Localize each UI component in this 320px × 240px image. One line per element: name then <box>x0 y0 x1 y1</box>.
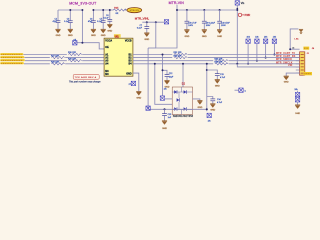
ground <box>295 105 300 109</box>
svg-text:10pF: 10pF <box>169 76 174 78</box>
wire Vin drop <box>236 5 238 64</box>
diode <box>184 90 187 94</box>
svg-text:NC: NC <box>105 73 109 76</box>
ground <box>55 29 60 33</box>
wire row1 right <box>133 54 300 56</box>
capacitor C10 <box>219 10 221 30</box>
wire 3V3 rail <box>58 9 82 11</box>
capacitor C12 <box>165 75 170 77</box>
svg-text:GND: GND <box>126 72 132 75</box>
capacitor C14 on vb line <box>207 97 213 99</box>
wire 3V3 to OE <box>81 10 83 43</box>
net label bus row2 (yellow) <box>1 56 23 58</box>
diode <box>184 107 187 111</box>
ground <box>101 29 106 33</box>
svg-text:VCCA: VCCA <box>105 40 112 43</box>
IC U1 level shifter <box>104 38 133 76</box>
ground <box>184 30 189 34</box>
wire OE net <box>76 43 104 49</box>
diode <box>174 107 177 111</box>
wire row4 right <box>133 63 300 65</box>
connector name highlight <box>303 47 309 50</box>
port on bottom rail <box>146 106 150 110</box>
wire port to ESD <box>165 98 173 100</box>
capacitor C5 <box>102 10 104 29</box>
ground <box>164 81 169 85</box>
resistor R31 <box>172 53 187 56</box>
capacitor C4 <box>92 10 94 29</box>
wire row3 left <box>25 60 104 62</box>
wire long drop to ESD rail <box>147 48 149 109</box>
svg-text:R33 22R: R33 22R <box>214 58 222 60</box>
svg-text:OE: OE <box>105 46 109 49</box>
svg-text:24v: 24v <box>208 120 211 122</box>
wire row4 to ESD drop1 <box>155 64 172 105</box>
svg-text:GND: GND <box>184 36 189 38</box>
connector pins <box>296 55 300 74</box>
ground <box>107 24 112 28</box>
capacitor C13 <box>207 70 218 74</box>
svg-text:47pF: 47pF <box>52 21 57 23</box>
wire Vin to connector pin5 <box>237 64 299 67</box>
resistor R27 <box>50 56 65 59</box>
svg-text:R29 22R: R29 22R <box>51 62 59 64</box>
svg-text:0.1uF: 0.1uF <box>103 18 109 20</box>
port spare <box>239 88 243 92</box>
junction <box>164 108 166 110</box>
port VBUS <box>160 96 164 100</box>
svg-text:C10 47pF: C10 47pF <box>221 22 231 24</box>
port below junction <box>207 113 211 117</box>
svg-text:R27 22R: R27 22R <box>51 55 59 57</box>
wire row2 right <box>133 57 300 59</box>
svg-text:0.1uF: 0.1uF <box>97 21 103 23</box>
capacitor C2 <box>57 10 59 29</box>
svg-text:0.1uF: 0.1uF <box>137 28 143 30</box>
junction <box>146 21 148 23</box>
svg-text:GND: GND <box>56 35 61 37</box>
wire stub to spare port <box>235 89 239 91</box>
part name highlight <box>304 72 312 75</box>
capacitor C6 <box>109 10 111 24</box>
svg-text:GND: GND <box>162 128 167 130</box>
svg-text:GND: GND <box>68 35 73 37</box>
svg-text:pd: pd <box>129 83 131 85</box>
svg-text:R26 22R: R26 22R <box>68 52 76 54</box>
svg-text:4.7uF: 4.7uF <box>217 102 223 104</box>
capacitor C9 <box>203 10 205 30</box>
power plug P1 <box>238 13 241 16</box>
ground <box>210 104 215 108</box>
IC ground pin wire <box>133 73 139 91</box>
svg-text:U1: U1 <box>115 34 119 38</box>
port MTR_VINL <box>164 20 168 24</box>
svg-text:1.6A: 1.6A <box>294 37 299 40</box>
svg-text:R34 22R: R34 22R <box>214 62 222 64</box>
capacitor C7 <box>146 22 148 33</box>
svg-text:io: io <box>245 90 246 92</box>
svg-text:MTR_VINL: MTR_VINL <box>135 16 150 20</box>
svg-text:GND: GND <box>284 82 289 84</box>
annotation box (red) <box>73 75 99 80</box>
resistor R25 0R <box>113 9 126 11</box>
svg-text:GND: GND <box>91 35 96 37</box>
ground below connector <box>286 73 299 76</box>
net label bus row3 (yellow) <box>1 59 24 61</box>
svg-text:100V: 100V <box>188 25 193 27</box>
wire row1 left <box>24 54 105 56</box>
svg-text:100V: 100V <box>221 25 226 27</box>
capacitor C3 <box>69 10 71 29</box>
svg-text:24v: 24v <box>164 88 167 90</box>
ground <box>91 29 96 33</box>
svg-text:C9 0.22uF: C9 0.22uF <box>206 22 216 24</box>
ground <box>162 121 167 125</box>
diode <box>177 98 180 102</box>
svg-text:100V: 100V <box>206 25 211 27</box>
junction row4 Vin <box>236 63 238 65</box>
svg-text:R28 22R: R28 22R <box>68 58 76 60</box>
port Vin <box>235 1 239 5</box>
resistor R32 <box>172 56 187 59</box>
wire <box>125 9 127 11</box>
wire row4 left <box>24 63 104 65</box>
svg-text:SMF05C/SOT353: SMF05C/SOT353 <box>173 115 194 118</box>
wire MTR-VIN rail <box>177 9 237 11</box>
ground <box>202 30 207 34</box>
junction dots <box>176 9 178 11</box>
svg-text:TCK 0402 REV A: TCK 0402 REV A <box>75 76 97 79</box>
svg-text:0.1uF: 0.1uF <box>64 21 70 23</box>
svg-text:R31 22R: R31 22R <box>174 52 182 54</box>
svg-text:MTR-VIN: MTR-VIN <box>130 10 140 12</box>
wire bottom rail <box>148 108 207 110</box>
resistor R26 <box>67 53 82 56</box>
wire row3 right <box>133 60 300 62</box>
svg-text:MCM_3V3-OUT: MCM_3V3-OUT <box>69 2 97 6</box>
wire ESD to ground <box>193 99 200 101</box>
svg-text:GND: GND <box>210 110 215 112</box>
svg-text:VCCB: VCCB <box>125 40 132 43</box>
ground <box>136 92 141 96</box>
ground <box>68 29 73 33</box>
svg-text:GND: GND <box>101 35 106 37</box>
svg-text:GND: GND <box>202 36 207 38</box>
port on GND pin <box>131 81 135 85</box>
svg-text:C8 4.7uF: C8 4.7uF <box>188 22 197 24</box>
svg-text:0R: 0R <box>116 13 119 15</box>
ground <box>217 30 222 34</box>
resistor R33 <box>213 59 228 62</box>
junction dots on 3V3 rail <box>69 9 71 11</box>
ground <box>197 101 202 105</box>
svg-text:GND: GND <box>144 39 149 41</box>
resistor R34 <box>213 62 228 65</box>
svg-text:GND: GND <box>215 86 220 88</box>
wire row3 to cap drop <box>163 55 168 96</box>
wire to connector pin <box>290 48 299 50</box>
svg-text:GND: GND <box>107 30 112 32</box>
svg-text:47pF: 47pF <box>88 21 93 23</box>
ground <box>215 80 220 84</box>
svg-text:PWR: PWR <box>245 14 251 17</box>
internal wires <box>172 87 192 115</box>
power arrow symbol <box>299 28 303 30</box>
svg-text:GND: GND <box>136 98 141 100</box>
wire row jog right cap <box>206 64 208 111</box>
net label bus row1 (yellow) <box>1 53 22 55</box>
diode <box>174 90 177 94</box>
svg-text:MTR-VIN: MTR-VIN <box>169 1 185 5</box>
svg-text:GND: GND <box>295 113 300 115</box>
wire ESD top drop <box>182 64 184 87</box>
wire VINL to VIN link <box>156 5 177 48</box>
junction <box>81 42 83 44</box>
connector J2 <box>300 52 305 75</box>
resistor R29 <box>50 62 65 65</box>
svg-text:4.7uF: 4.7uF <box>220 77 226 79</box>
resistor R28 <box>67 59 82 62</box>
svg-text:R32 22R: R32 22R <box>174 55 182 57</box>
wire row2 left <box>25 57 105 59</box>
svg-text:VIN: VIN <box>288 64 293 67</box>
ground <box>144 33 149 37</box>
port OE <box>73 41 77 45</box>
junction <box>155 21 157 23</box>
capacitor C8 <box>186 10 188 30</box>
svg-text:GND: GND <box>217 36 222 38</box>
svg-text:24: 24 <box>292 48 294 50</box>
wire MTR_VINL <box>142 21 164 23</box>
svg-text:This part number may change: This part number may change <box>69 81 101 84</box>
capacitor C15 <box>164 109 166 113</box>
offsheet connector MTR-VIN oval <box>127 8 142 13</box>
wire aux power branch <box>290 29 298 49</box>
net label bus row4 (yellow) <box>1 62 23 64</box>
